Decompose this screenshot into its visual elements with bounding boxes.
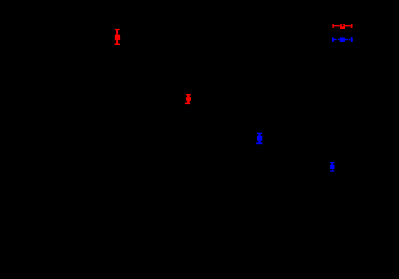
ammonia molecule H-N-H (blue, dashed bonds), legend top right bbox=[332, 37, 353, 42]
ring nitrogen N (blue atom label with bond stubs), main structure bbox=[330, 162, 334, 172]
carbon skeleton bonds (black, invisible against black background) bbox=[30, 46, 365, 215]
water molecule H-O-H (red), legend top right bbox=[332, 24, 352, 29]
ether oxygen O (red atom label with bond stubs), main structure bbox=[185, 94, 191, 104]
amine N-H (blue atom label with bond stubs), main structure bbox=[256, 133, 262, 145]
hydroxyl group OH (red atom label with bond stubs), main structure bbox=[115, 29, 121, 45]
